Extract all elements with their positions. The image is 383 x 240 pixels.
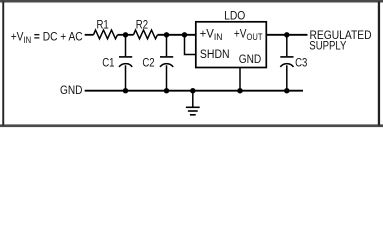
svg-text:SHDN: SHDN — [200, 49, 230, 62]
wire bottom GND rail — [85, 90, 303, 92]
svg-text:R1: R1 — [96, 18, 108, 31]
svg-text:+VIN = DC + AC: +VIN = DC + AC — [11, 31, 83, 45]
border frame bottom band — [0, 124, 383, 127]
op-amp LDO box U1 — [196, 22, 266, 68]
svg-text:SUPPLY: SUPPLY — [309, 40, 346, 53]
node ground junction — [190, 88, 195, 93]
svg-text:C2: C2 — [142, 56, 154, 69]
node LDO GND pin junction — [237, 88, 242, 93]
svg-text:LDO: LDO — [224, 10, 245, 23]
wire R1 to R2 — [118, 34, 134, 36]
wire R2 to LDO VIN pin — [158, 34, 197, 36]
wire C3 lower stem — [286, 65, 288, 90]
resistor R2 — [134, 30, 158, 39]
ground symbol — [186, 91, 200, 115]
wire LDO GND pin — [239, 68, 241, 91]
svg-text:C1: C1 — [102, 56, 114, 69]
node C3 bottom junction — [284, 88, 289, 93]
wire C2 upper stem — [166, 35, 168, 56]
capacitor C1 — [119, 57, 132, 67]
wire VOUT output — [266, 34, 307, 36]
wire C1 upper stem — [125, 35, 127, 56]
node C2 top junction — [164, 32, 169, 37]
border frame right line — [378, 2, 380, 126]
wire SHDN route — [185, 35, 197, 55]
node C2 bottom junction — [164, 88, 169, 93]
svg-text:GND: GND — [239, 53, 262, 66]
wire input lead to R1 — [85, 34, 94, 36]
border frame top band — [0, 0, 383, 3]
node SHDN junction — [182, 32, 187, 37]
svg-text:R2: R2 — [136, 18, 148, 31]
node C3 top junction — [284, 32, 289, 37]
svg-text:GND: GND — [60, 84, 82, 97]
node C1 bottom junction — [123, 88, 128, 93]
wire C3 upper stem — [286, 35, 288, 56]
node C1 top junction — [123, 32, 128, 37]
svg-text:C3: C3 — [295, 57, 307, 70]
border frame left line — [2, 2, 4, 126]
capacitor C2 — [160, 57, 173, 67]
capacitor C3 — [280, 57, 293, 67]
resistor R1 — [94, 30, 118, 39]
wire C1 lower stem — [125, 65, 127, 90]
wire C2 lower stem — [166, 65, 168, 90]
